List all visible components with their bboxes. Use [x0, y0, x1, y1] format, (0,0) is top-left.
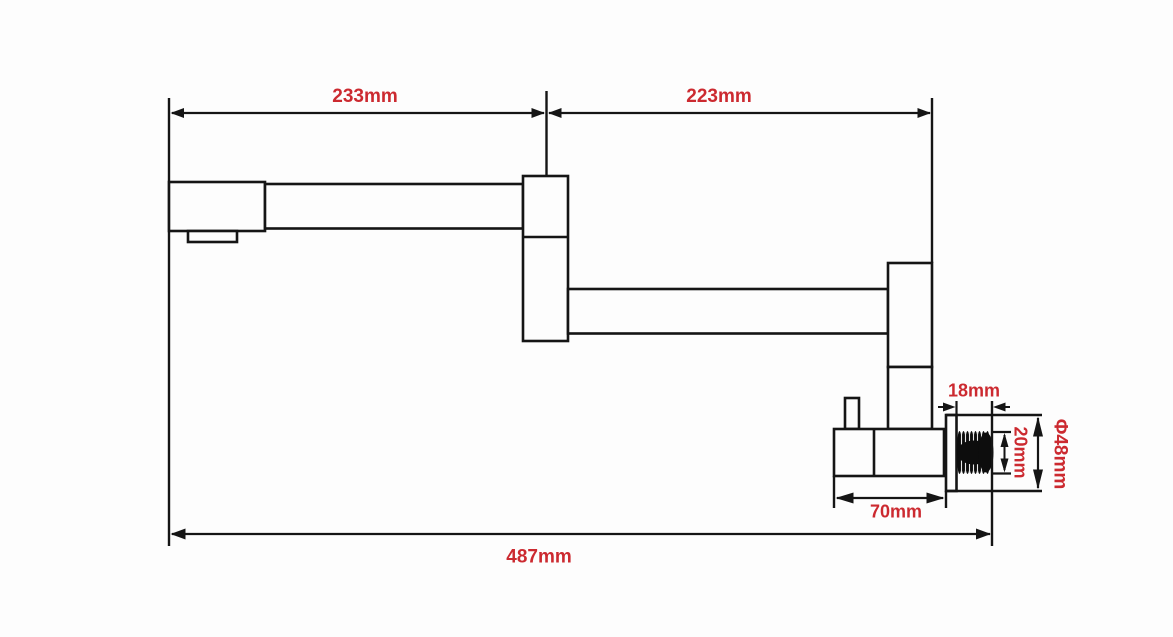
faucet spout body — [169, 182, 265, 231]
wire middle extension line — [545, 91, 547, 176]
threaded pipe — [957, 431, 990, 474]
20mm bottom extension line — [993, 472, 1011, 474]
dimension 70mm arrow line — [836, 493, 945, 504]
wire left extension line — [168, 98, 170, 546]
right swivel joint — [888, 263, 932, 367]
dimension 223mm arrow line — [548, 108, 931, 118]
svg-text:223mm: 223mm — [686, 86, 752, 107]
20mm top extension line — [993, 431, 1011, 433]
wall flange plate — [946, 415, 957, 491]
valve body divider — [873, 429, 876, 476]
18mm left arrow — [938, 403, 956, 412]
phi48 top extension line — [946, 414, 1042, 416]
dimension phi48 arrow line — [1033, 417, 1043, 490]
dimension 487mm arrow line — [171, 529, 992, 540]
middle swivel joint — [523, 176, 568, 341]
faucet spout tip — [188, 231, 237, 242]
middle joint divider — [523, 236, 568, 239]
18mm left extension line — [955, 401, 957, 415]
thread rib gaps — [962, 432, 982, 473]
svg-text:487mm: 487mm — [506, 547, 572, 568]
wire right extension line — [931, 98, 933, 263]
valve body — [834, 429, 944, 476]
valve handle nub — [845, 398, 859, 429]
svg-text:18mm: 18mm — [948, 381, 1000, 401]
70mm right extension line — [945, 491, 947, 508]
18mm right arrow — [993, 403, 1010, 412]
faucet arm 2 — [568, 289, 888, 334]
thread solid middle band — [957, 433, 994, 473]
18mm right extension line — [991, 401, 993, 546]
dimension 233mm arrow line — [171, 108, 546, 118]
70mm left extension line — [833, 476, 835, 508]
faucet arm 1 — [265, 184, 523, 229]
dimension 20mm arrow line — [1001, 433, 1009, 473]
svg-text:70mm: 70mm — [870, 502, 922, 522]
svg-text:Φ48mm: Φ48mm — [1050, 419, 1071, 490]
phi48 bottom extension line — [946, 490, 1042, 492]
right joint lower pipe — [888, 367, 932, 429]
svg-text:233mm: 233mm — [332, 86, 398, 107]
svg-text:20mm: 20mm — [1011, 426, 1031, 478]
